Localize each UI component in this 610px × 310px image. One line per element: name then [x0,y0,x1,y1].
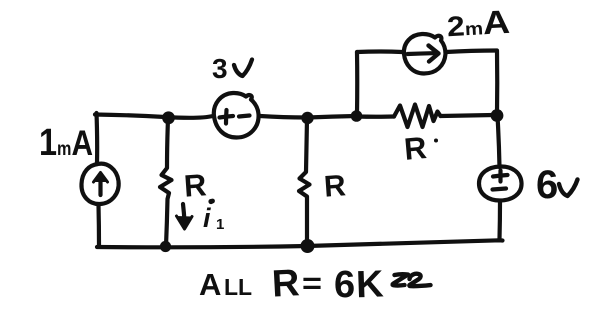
svg-text:i: i [203,203,211,233]
wire left vertical upper (top wire down to 1mA source) [94,113,99,163]
wire node B to node C [308,116,356,118]
wire right vertical upper (node D to 6V source) [498,116,500,167]
stray dot after R1 label [210,199,215,204]
wire 2mA branch top-right horizontal [446,51,497,53]
resistor R2 vertical (with zigzag) [299,119,310,245]
wire 2mA branch top-left horizontal [357,49,402,54]
wire 3V source to node B [260,116,307,118]
svg-text:R: R [403,130,428,167]
node C (junction / 2mA branch) [351,110,363,122]
svg-text:A: A [199,267,221,302]
wire right vertical lower (6V source to bottom wire) [497,202,502,240]
wire top-left horizontal (node A to 3V source) [95,115,213,118]
svg-text:6: 6 [536,163,558,207]
current source I1 arrow up [98,175,102,195]
V1 plus sign [220,116,234,118]
svg-text:K: K [355,263,384,306]
current source I2 arrow right [408,51,434,56]
wire bottom horizontal [97,240,503,247]
wire 2mA branch left vertical [355,52,359,114]
resistor R3 zigzag [394,105,441,128]
svg-text:R: R [183,167,208,203]
stray dot right of R3 label [434,139,438,143]
node F (bottom junction R2) [301,239,315,253]
current arrow i1 (down arrow) [183,204,185,221]
voltage source V1 3V circle [214,93,259,138]
svg-text:3: 3 [212,53,228,84]
node B (junction / R2) [301,112,313,124]
svg-text:2mA: 2mA [446,3,511,43]
svg-text:R: R [271,262,301,305]
node D (junction R3 / 2mA / 6V) [491,109,504,122]
current source I2 2mA circle [404,34,446,74]
wire 2mA branch right vertical [495,51,499,114]
svg-text:R: R [323,169,347,203]
V2 minus sign [493,189,507,190]
node E (bottom junction R1) [160,241,171,252]
V2 plus sign [493,175,508,177]
svg-text:6: 6 [334,264,355,306]
svg-text:1mA: 1mA [39,122,93,164]
handwritten ohm symbol [393,274,408,285]
svg-text:1: 1 [216,216,224,233]
resistor R1 vertical (with zigzag) [160,119,172,246]
wire left vertical lower (1mA source to bottom wire) [96,205,101,246]
node A (junction top wire / R1) [162,111,175,124]
V1 minus sign [239,116,250,117]
voltage source V2 6V circle (ellipse) [479,166,522,200]
resistor R3 horizontal lead left [357,114,394,118]
current source I1 1mA circle [81,164,118,204]
svg-text:=: = [302,267,322,300]
svg-text:LL: LL [224,274,252,300]
resistor R3 lead right [441,115,495,116]
